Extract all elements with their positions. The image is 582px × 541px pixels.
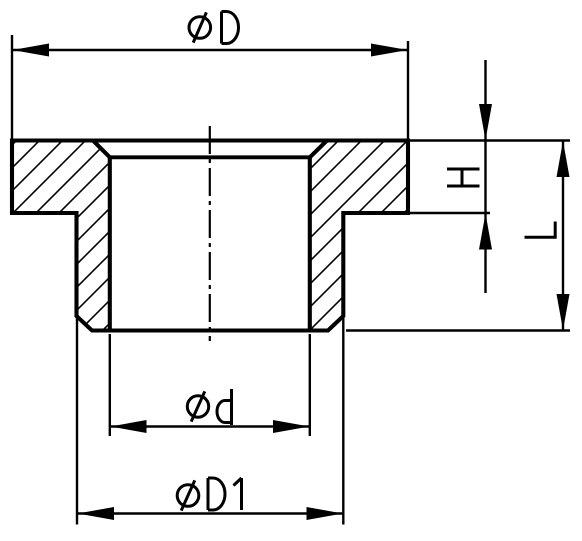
label OD: diameter symbol (189, 12, 211, 42)
dimension OD: arrowhead right (371, 44, 408, 57)
dimension d: dimension line (111, 425, 310, 427)
dimension OD: extension line right (407, 41, 409, 139)
dimension d: extension line right (309, 334, 311, 436)
dimension H: arrowhead top (points down to flange top) (479, 104, 492, 140)
dimension D1: extension line right (342, 317, 344, 525)
dimension L: dimension line (562, 141, 564, 330)
dimension OD: dimension line (13, 49, 407, 51)
label L (rotated) (525, 222, 556, 239)
label H (rotated) (447, 169, 480, 186)
label OD1: digit 1 (234, 478, 242, 510)
label Od: diameter symbol (187, 391, 208, 421)
dimension D1: extension line left (76, 317, 78, 525)
chamfer bottom edge line across bore (110, 155, 310, 159)
dimension OD: extension line left (11, 35, 13, 139)
label OD1: diameter symbol (177, 480, 199, 510)
part outline (flanged bushing section) (12, 141, 408, 331)
bore top chamfer left (93, 141, 110, 158)
dimension H: upper dimension line with down arrow (484, 60, 486, 293)
bore wall right (308, 157, 312, 330)
label OD: letter D (222, 12, 239, 44)
dimension D1: dimension line (78, 512, 343, 514)
dimension d: extension line left (109, 334, 111, 436)
dimension D1: arrowhead right (307, 507, 343, 520)
dimension d: arrowhead left (110, 420, 146, 433)
bore top chamfer right (310, 141, 327, 158)
dimension L: arrowhead top (points up) (557, 141, 570, 177)
dimension D1: arrowhead left (78, 507, 114, 520)
centerline (vertical axis, dash-dot) (209, 126, 211, 341)
dimension H: arrowhead bottom (points up to flange bottom) (479, 214, 492, 250)
hatching left section (0, 135, 367, 336)
dimension H: extension line at flange top (shared with L) (410, 139, 570, 141)
dimension L: extension line at part bottom (346, 329, 570, 331)
bore wall left (108, 157, 112, 330)
label Od: letter d (217, 389, 232, 425)
dimension L: arrowhead bottom (points down) (557, 294, 570, 330)
dimension OD: arrowhead left (13, 44, 50, 57)
dimension d: arrowhead right (273, 420, 309, 433)
hatching right section (97, 135, 582, 336)
dimension H: extension line at flange bottom (410, 212, 490, 214)
label OD1: letter D (208, 478, 225, 510)
